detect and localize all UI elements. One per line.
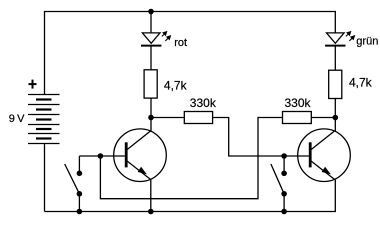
wire R3 to base Q2 [213, 118, 309, 157]
wire collector node to resistor R3 [151, 117, 184, 119]
node base Q1 junction [98, 153, 104, 159]
transistor Q1 [114, 129, 167, 182]
wire collector Q2 to node [334, 99, 336, 132]
resistor R1 4,7k [144, 70, 157, 98]
wire base Q1 [79, 155, 124, 157]
battery plus label [29, 80, 37, 89]
wire top node to LED D1 [150, 12, 152, 33]
wire R2 to LED D2 [334, 46, 336, 71]
LED D2 light arrows [346, 32, 355, 41]
node collector Q1 junction [148, 115, 154, 121]
battery B1 9V [28, 95, 60, 144]
node switch S1 bottom junction [77, 209, 83, 215]
wire left lower (battery minus to bottom rail) [44, 144, 46, 212]
node emitter Q1 bottom junction [148, 209, 154, 215]
svg-text:rot: rot [174, 37, 187, 49]
resistor R2 4,7k [329, 70, 342, 98]
transistor Q2 [298, 129, 351, 182]
wire cross-coupling base Q1 to resistor R4 [100, 118, 282, 199]
svg-text:330k: 330k [285, 96, 312, 110]
node base Q2 junction [281, 153, 287, 159]
switch S2 [271, 156, 287, 212]
svg-text:4,7k: 4,7k [349, 75, 373, 89]
wire R1 to collector node [150, 98, 152, 131]
node collector Q2 junction [333, 115, 339, 121]
wire bottom rail [45, 180, 336, 212]
LED D2 (gruen) [325, 33, 345, 46]
wire LED D1 to resistor R1 [150, 46, 152, 70]
wire R4 to collector node Q2 [311, 117, 335, 119]
wire emitter Q1 to bottom rail [150, 179, 152, 211]
wire top rail [45, 12, 336, 95]
resistor R3 330k [184, 112, 212, 124]
node top junction [148, 9, 154, 15]
svg-text:9 V: 9 V [9, 113, 25, 125]
node switch S2 bottom junction [281, 209, 287, 215]
svg-text:grün: grün [356, 36, 378, 48]
LED D1 (rot) [141, 33, 161, 46]
switch S1 [65, 156, 83, 212]
svg-text:4,7k: 4,7k [164, 79, 188, 93]
resistor R4 330k [283, 112, 312, 124]
LED D1 light arrows [162, 32, 171, 41]
svg-text:330k: 330k [190, 96, 217, 110]
